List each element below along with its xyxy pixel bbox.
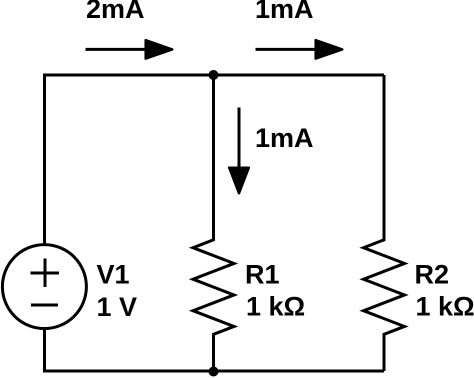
current arrow 2mA shaft bbox=[86, 48, 149, 51]
svg-text:1 kΩ: 1 kΩ bbox=[246, 292, 305, 322]
current arrow 1mA top-right shaft bbox=[256, 48, 319, 51]
current arrow 2mA head bbox=[146, 40, 173, 58]
svg-text:R1: R1 bbox=[245, 260, 280, 290]
V1 plus sign bbox=[31, 259, 60, 288]
current arrow 1mA down shaft bbox=[238, 108, 241, 169]
node top junction bbox=[209, 70, 219, 80]
V1 minus sign bbox=[31, 304, 58, 307]
wire top rail bbox=[45, 75, 385, 246]
svg-text:1 V: 1 V bbox=[97, 292, 138, 322]
resistor R2 bbox=[364, 75, 405, 371]
svg-text:R2: R2 bbox=[415, 260, 450, 290]
current arrow 1mA down head bbox=[229, 168, 249, 194]
svg-text:1 kΩ: 1 kΩ bbox=[416, 292, 474, 322]
voltage source V1 circle bbox=[2, 245, 86, 329]
svg-text:2mA: 2mA bbox=[86, 0, 145, 24]
svg-text:V1: V1 bbox=[97, 260, 130, 290]
wire bottom rail bbox=[45, 327, 385, 371]
resistor R1 bbox=[193, 75, 234, 371]
current arrow 1mA top-right head bbox=[316, 40, 343, 58]
svg-text:1mA: 1mA bbox=[255, 123, 314, 153]
node bottom junction bbox=[209, 367, 219, 377]
svg-text:1mA: 1mA bbox=[255, 0, 314, 24]
